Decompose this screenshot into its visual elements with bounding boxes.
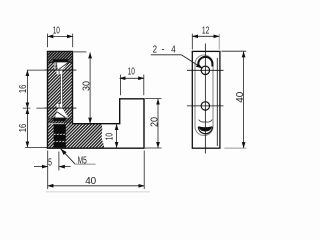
mid dark zone <box>48 118 72 124</box>
svg-text:30: 30 <box>81 81 92 91</box>
M5 thread black blocks <box>54 124 66 134</box>
dim 10 (step top) line <box>120 77 144 79</box>
hole top (phi4) <box>201 66 209 74</box>
light gap line above threads <box>48 122 64 125</box>
dim 16 upper line <box>26 70 28 108</box>
svg-text:40: 40 <box>235 91 246 102</box>
svg-text:10: 10 <box>105 133 116 140</box>
svg-text:M5: M5 <box>78 156 87 167</box>
upper centerline through column <box>45 69 77 71</box>
inner right edge line <box>216 58 218 146</box>
cone inner diagonal <box>58 63 68 70</box>
svg-text:2: 2 <box>153 43 158 55</box>
inner slot bottom arc <box>198 127 212 134</box>
svg-text:40: 40 <box>85 176 96 187</box>
dim 10 (step top) ext lines <box>120 75 143 96</box>
dim 40 right: bottom tick (gray) <box>224 147 246 149</box>
top dark band of column <box>48 52 73 63</box>
dim 10 (column top) lines <box>48 34 73 48</box>
dim 40 bottom line <box>48 185 145 187</box>
part outline <box>48 52 145 149</box>
inner slot thick top arc <box>198 57 212 67</box>
label leader arrow <box>181 55 202 69</box>
slot wall lines <box>61 62 63 121</box>
dim 12 line <box>192 35 219 37</box>
dim 20 bottom tick <box>145 147 162 149</box>
dim 40 right: top tick <box>222 50 247 52</box>
label underline <box>151 54 182 56</box>
svg-text:16: 16 <box>18 84 29 93</box>
vertical centerline <box>204 44 206 154</box>
faint scan smudge <box>46 191 150 192</box>
svg-text:10: 10 <box>53 25 60 36</box>
svg-text:4: 4 <box>171 43 176 55</box>
cone left dark line <box>56 62 58 70</box>
above-mid-cone slot line <box>58 104 60 108</box>
svg-text:-: - <box>161 43 165 55</box>
hatched section body (column + left part of base, wavy break line at right) <box>48 52 105 149</box>
above-mid-cone slot mouth <box>57 104 63 108</box>
cone left gray strip <box>54 62 56 70</box>
dim 12 ext lines <box>191 34 193 50</box>
mid centerline through column <box>45 107 77 109</box>
plate rectangle <box>192 51 220 148</box>
dim 16 middle tick <box>23 107 47 109</box>
dim 40 bottom right ext <box>143 151 145 190</box>
hole bottom (phi4) <box>201 102 209 110</box>
dim 30 (right of column) tick <box>74 51 87 53</box>
top countersink cone <box>55 62 68 70</box>
below-cone slot line <box>58 71 60 75</box>
small wavy arc below lower hole <box>199 120 213 123</box>
dim 30 line <box>89 53 91 124</box>
dim 40 right line <box>243 52 245 148</box>
svg-text:10: 10 <box>128 67 135 78</box>
svg-text:16: 16 <box>18 123 29 132</box>
below-cone slot mouth <box>57 71 63 75</box>
M5 leader arrow <box>61 149 75 164</box>
mid cone inner diagonal <box>57 112 65 118</box>
mid countersink seat (black bar) <box>53 118 66 121</box>
mid countersink cone (inverted) <box>55 108 68 118</box>
dim 16 lower line <box>26 108 28 147</box>
outer slot obround (gray) <box>195 55 213 136</box>
svg-text:5: 5 <box>48 157 52 168</box>
slot white channel <box>61 62 63 121</box>
dim 5 ext lines <box>48 151 59 190</box>
dim 16 upper tick <box>27 69 47 71</box>
bottom hole centerline <box>187 105 224 107</box>
svg-text:20: 20 <box>149 117 160 127</box>
dim 16 bottom tick <box>25 146 47 148</box>
dim 20 line <box>157 99 159 148</box>
dim 5 arrows outside <box>34 166 48 168</box>
M5 underline (gray) <box>75 163 96 165</box>
top hole centerline <box>187 69 224 71</box>
svg-text:12: 12 <box>202 26 210 37</box>
bottom black crescent <box>198 126 212 131</box>
top countersink seat (black bar) <box>53 59 69 62</box>
dim 10 (base height) line <box>116 124 118 147</box>
dim 20 top tick <box>145 98 162 100</box>
